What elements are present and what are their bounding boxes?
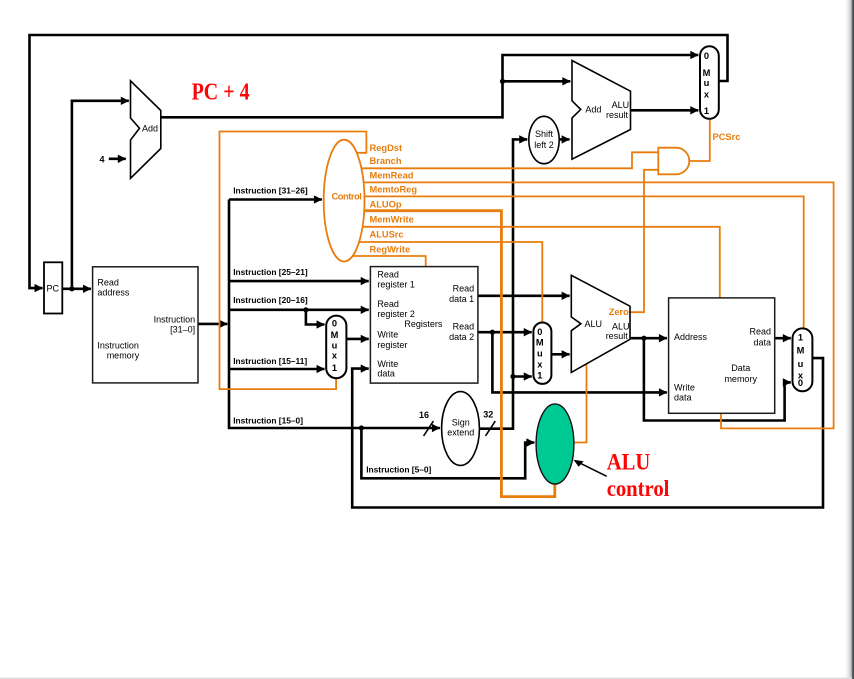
svg-text:Instruction [5–0]: Instruction [5–0] <box>366 465 431 475</box>
svg-text:register 2: register 2 <box>377 309 415 319</box>
svg-text:MemWrite: MemWrite <box>370 215 414 225</box>
svg-text:RegWrite: RegWrite <box>370 244 411 254</box>
svg-text:MemtoReg: MemtoReg <box>370 184 418 194</box>
svg-text:Add: Add <box>585 105 601 115</box>
svg-text:Read: Read <box>749 326 771 336</box>
svg-text:1: 1 <box>704 106 709 116</box>
svg-text:[31–0]: [31–0] <box>170 324 195 334</box>
svg-text:data: data <box>674 393 692 403</box>
svg-text:memory: memory <box>107 350 140 360</box>
svg-text:0: 0 <box>332 319 337 329</box>
svg-text:Instruction [15–11]: Instruction [15–11] <box>233 356 307 366</box>
svg-text:ALUOp: ALUOp <box>370 199 402 209</box>
svg-text:x: x <box>537 360 543 370</box>
svg-text:data: data <box>753 337 771 347</box>
svg-text:PCSrc: PCSrc <box>713 132 741 142</box>
svg-text:x: x <box>332 351 338 361</box>
svg-text:M: M <box>331 330 339 340</box>
svg-text:ALU: ALU <box>607 450 651 475</box>
svg-text:PC: PC <box>47 284 60 294</box>
svg-text:Read: Read <box>377 299 399 309</box>
svg-text:M: M <box>703 68 711 78</box>
svg-text:Control: Control <box>332 191 362 201</box>
svg-text:Read: Read <box>97 278 119 288</box>
svg-text:Add: Add <box>142 124 158 134</box>
svg-text:left 2: left 2 <box>534 140 554 150</box>
svg-text:Address: Address <box>674 332 708 342</box>
svg-text:register: register <box>377 340 407 350</box>
svg-text:data 2: data 2 <box>449 332 474 342</box>
svg-text:Zero: Zero <box>609 307 629 317</box>
svg-text:x: x <box>704 90 710 100</box>
svg-text:u: u <box>537 349 543 359</box>
svg-text:Data: Data <box>731 363 750 373</box>
svg-text:1: 1 <box>537 370 542 380</box>
svg-text:Instruction: Instruction <box>97 341 139 351</box>
svg-text:0: 0 <box>798 378 803 388</box>
svg-text:M: M <box>536 338 544 348</box>
svg-text:Shift: Shift <box>535 129 554 139</box>
svg-text:control: control <box>607 476 670 501</box>
svg-text:1: 1 <box>332 363 337 373</box>
svg-text:Read: Read <box>453 322 475 332</box>
svg-text:extend: extend <box>447 428 474 438</box>
svg-text:32: 32 <box>483 410 493 420</box>
svg-text:ALUSrc: ALUSrc <box>370 229 404 239</box>
svg-text:Instruction [25–21]: Instruction [25–21] <box>233 267 308 277</box>
svg-text:Write: Write <box>377 330 398 340</box>
svg-text:Sign: Sign <box>452 417 470 427</box>
svg-text:data: data <box>377 368 395 378</box>
svg-text:Branch: Branch <box>370 156 402 166</box>
svg-text:Write: Write <box>674 383 695 393</box>
svg-text:16: 16 <box>419 410 429 420</box>
svg-text:address: address <box>97 287 130 297</box>
svg-text:ALU: ALU <box>585 319 603 329</box>
svg-text:M: M <box>797 345 805 355</box>
svg-text:RegDst: RegDst <box>370 143 403 153</box>
svg-text:0: 0 <box>704 51 709 61</box>
svg-text:u: u <box>332 340 338 350</box>
svg-text:u: u <box>704 78 710 88</box>
svg-text:result: result <box>606 110 629 120</box>
svg-text:Read: Read <box>453 284 475 294</box>
svg-text:result: result <box>606 331 629 341</box>
svg-text:ALU: ALU <box>612 100 630 110</box>
svg-text:Instruction: Instruction <box>154 314 196 324</box>
svg-text:4: 4 <box>99 154 104 164</box>
svg-text:0: 0 <box>537 327 542 337</box>
svg-text:memory: memory <box>724 374 757 384</box>
svg-text:PC + 4: PC + 4 <box>192 79 250 105</box>
svg-text:Instruction [15–0]: Instruction [15–0] <box>233 416 303 426</box>
svg-text:Instruction [31–26]: Instruction [31–26] <box>233 185 308 195</box>
svg-text:Registers: Registers <box>404 319 443 329</box>
svg-text:MemRead: MemRead <box>370 171 414 181</box>
svg-text:data 1: data 1 <box>449 294 474 304</box>
svg-text:u: u <box>798 359 804 369</box>
svg-text:Read: Read <box>377 270 399 280</box>
svg-text:register 1: register 1 <box>377 279 415 289</box>
svg-text:1: 1 <box>798 332 803 342</box>
svg-text:Instruction [20–16]: Instruction [20–16] <box>233 295 308 305</box>
